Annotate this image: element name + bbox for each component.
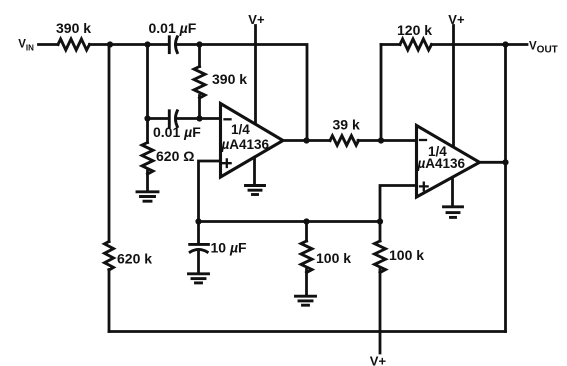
wire node A to node B	[110, 43, 148, 46]
node A junction	[107, 41, 113, 47]
input terminal VIN	[18, 39, 34, 53]
svg-text:100 k: 100 k	[389, 247, 424, 263]
bias rail wire	[199, 220, 381, 223]
wire VIN to R1	[39, 43, 59, 46]
wire node D to op-amp1 inverting input	[200, 117, 221, 120]
node E junction	[144, 115, 150, 121]
svg-text:620 Ω: 620 Ω	[156, 148, 194, 164]
svg-text:µA4136: µA4136	[221, 137, 270, 152]
resistor R5 120 k	[381, 22, 527, 50]
wire node B down to node E	[146, 45, 149, 119]
node I junction (R7 tap)	[303, 218, 309, 224]
wire node F up to feedback R5	[380, 45, 383, 141]
wire op-amp2 V- pin to ground	[451, 179, 454, 206]
node G junction (VOUT node)	[502, 41, 508, 47]
resistor R2 390 k (vertical feedback)	[194, 45, 247, 119]
ground G1 (below R3)	[137, 192, 158, 201]
left rail wire (node A down to bottom wire)	[108, 45, 111, 242]
resistor R6 620 k	[105, 242, 153, 332]
resistor R1 390 k	[56, 20, 91, 50]
node output U2 junction	[502, 159, 508, 165]
output terminal VOUT	[529, 41, 558, 56]
power V+ for op-amp U2	[448, 12, 465, 147]
wire node B to C1	[148, 43, 169, 46]
svg-text:620 k: 620 k	[117, 251, 152, 267]
svg-text:µA4136: µA4136	[417, 156, 466, 171]
svg-text:0.01 µF: 0.01 µF	[149, 20, 197, 36]
svg-text:100 k: 100 k	[316, 250, 351, 266]
capacitor C1 0.01 uF	[149, 20, 197, 53]
wire R1 to node A	[90, 43, 111, 46]
node D junction (R2/C2 to inverting input)	[196, 115, 202, 121]
right rail wire (VOUT node down to bottom feedback wire)	[504, 45, 507, 332]
wire op-amp1 output	[283, 139, 330, 142]
ground G5 (op-amp2)	[444, 207, 463, 218]
svg-text:10 µF: 10 µF	[211, 239, 248, 255]
node output U1 junction	[303, 137, 309, 143]
svg-text:V+: V+	[448, 12, 465, 27]
ground G4 (below R7)	[296, 296, 316, 305]
wire R4 to node F	[358, 139, 417, 142]
wire op-amp1 V- pin to ground	[253, 158, 256, 185]
wire C1 to node C	[176, 43, 200, 46]
power V+ bottom (feeds R8)	[370, 354, 387, 366]
ground G2 (op-amp1)	[246, 186, 265, 195]
wire op-amp2 noninverting input to node J	[380, 186, 417, 222]
node B junction	[144, 41, 150, 47]
op-amp U1 (1/4 uA4136)	[221, 104, 284, 178]
resistor R8 100 k	[375, 222, 425, 354]
svg-text:1/4: 1/4	[231, 122, 250, 137]
bottom feedback wire	[109, 330, 506, 333]
svg-text:390 k: 390 k	[212, 71, 247, 87]
node F junction	[378, 137, 384, 143]
resistor R3 620 ohm	[142, 119, 194, 192]
wire op-amp1 noninverting input to bias node H	[199, 161, 221, 222]
svg-text:0.01 µF: 0.01 µF	[153, 124, 201, 140]
svg-text:390 k: 390 k	[56, 20, 91, 36]
svg-text:120 k: 120 k	[397, 22, 432, 38]
wire op-amp2 output to right rail	[480, 161, 506, 164]
resistor R4 39 k	[330, 116, 360, 145]
ground G3 (below C3)	[189, 274, 209, 283]
svg-text:V+: V+	[370, 354, 387, 366]
node C junction	[196, 41, 202, 47]
op-amp U2 (1/4 uA4136)	[417, 126, 480, 198]
svg-text:39 k: 39 k	[333, 116, 360, 132]
wire node C to feedback corner and down to op-amp1 output node	[200, 45, 308, 141]
resistor R7 100 k	[301, 222, 351, 296]
capacitor C3 10 uF	[190, 222, 247, 274]
node J junction (bias rail right)	[377, 218, 383, 224]
node H junction (bias rail left)	[195, 218, 201, 224]
capacitor C2 0.01 uF	[148, 111, 202, 140]
power V+ for op-amp U1	[248, 12, 265, 126]
